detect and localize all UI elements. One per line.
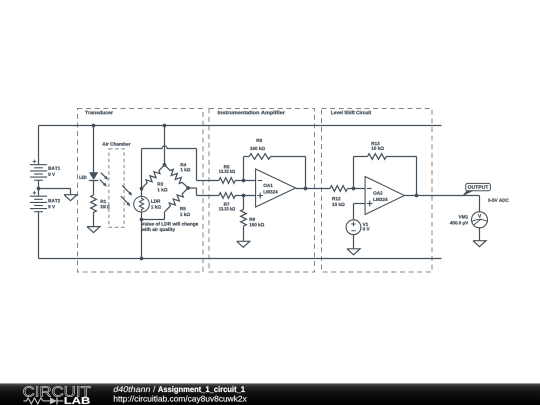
wire bottom vertex to R5 [142,212,165,220]
wire R12 to OA2 inverting input [348,188,366,190]
LED D1 [79,172,98,180]
ground below R9 [237,241,250,247]
wire R13 riser [354,157,368,189]
wire feedback riser left [244,157,250,181]
node bridge right vertex [186,186,190,190]
wire R6 to inverting input [235,180,255,182]
LDR light arrow 2 [121,196,131,206]
node OA1 output / feedback [304,187,308,191]
annotation 0-5V ADC [488,199,508,202]
battery BAT1 9 V [30,160,60,181]
footer black bar [0,383,540,405]
wire LED branch drop [93,126,95,173]
node mid battery junction [37,187,41,191]
node OA1 non-inverting input [242,194,246,198]
node OA1 inverting input [242,179,246,183]
wire R9 to ground [243,226,245,241]
wire mid node to ground [39,189,71,195]
annotation: Value of LDR will change with air quality [141,222,198,232]
node R12/R13 junction [352,187,356,191]
resistor R4 1 kOhm [165,163,191,188]
CircuitLab logo: resistor zigzag [24,398,47,404]
wire left vertex riser [141,149,143,189]
node top rail / LED branch [92,124,96,128]
CircuitLab logo: diode symbol [47,397,64,404]
wire R8 to output node [271,157,306,189]
node bottom rail junction [140,257,144,261]
wire output drop to voltmeter [479,196,481,212]
ground below VM1 [473,241,486,247]
wire OA1 output [296,188,330,190]
resistor R9 160 kOhm [241,196,264,227]
op-amp OA1 LM324 [256,169,296,207]
resistor R1 330 Ohm [91,195,110,212]
LDR light arrow 1 [122,186,132,196]
ground mid supply [64,195,77,201]
wire R13 to output node [386,157,416,196]
wire BAT1 to mid node [38,180,40,188]
wire R1 to ground [93,212,95,226]
node top rail / bridge branch [163,124,167,128]
wire LED to R1 [93,181,95,196]
LED emission arrow 2 [100,180,107,187]
node bridge bottom corner [140,218,144,222]
wire OA2 output [404,195,479,197]
voltage source V1 0 V [346,220,369,235]
wire mid node to BAT2 [38,189,40,197]
wire left drop to BAT1 [38,126,40,165]
wire right vertex to R7 level [188,188,219,196]
wire OA2 non-inverting input to V1 [354,204,366,220]
CircuitLab logo: CIRCUIT outline text [23,386,90,396]
node bridge top vertex [163,163,167,167]
footer title text: d40thann / Assignment_1_circuit_1 [114,386,245,394]
ground below R1 [87,227,100,233]
wire top rail [39,125,442,127]
node bridge left vertex [140,187,144,191]
resistor R3 1 kOhm [142,165,168,191]
resistor R7 13.33 kOhm [219,193,235,211]
wire bridge drop [164,126,166,165]
resistor R6 13.33 kOhm [219,165,235,183]
op-amp OA2 LM324 [365,177,404,215]
net flag OUTPUT [462,183,491,196]
resistor R13 10 kOhm [368,142,387,159]
battery BAT2 9 V [30,191,60,212]
node OA2 output / feedback [415,194,419,198]
dashed region box: Level Shift Circuit [322,109,433,273]
LED emission arrow 1 [101,173,108,180]
voltmeter VM1 450.0 uV [450,212,488,228]
wire BAT2 to bottom rail [38,212,40,259]
wire V1 to ground [353,235,355,249]
dashed region box: Air Chamber [102,142,130,227]
dashed region box: Transducer [78,109,204,273]
wire VM1 to ground [479,228,481,241]
wire bottom rail [39,258,442,260]
wire hop from left vertex to right branch [142,146,197,149]
CircuitLab logo: LAB text [65,397,90,404]
footer url text [114,396,247,404]
wire R7 to non-inverting input [235,195,255,197]
resistor R12 10 kOhm [330,186,348,206]
resistor R8 160 kOhm [249,139,270,160]
ground below V1 [347,249,360,255]
dashed region box: Instrumentation Amplifier [209,109,315,273]
wire bridge to bottom rail [141,220,143,259]
resistor R5 1 kOhm [165,188,190,216]
wire right branch down to R6 level [197,149,219,181]
photoresistor LDR 1 kOhm [134,189,161,220]
